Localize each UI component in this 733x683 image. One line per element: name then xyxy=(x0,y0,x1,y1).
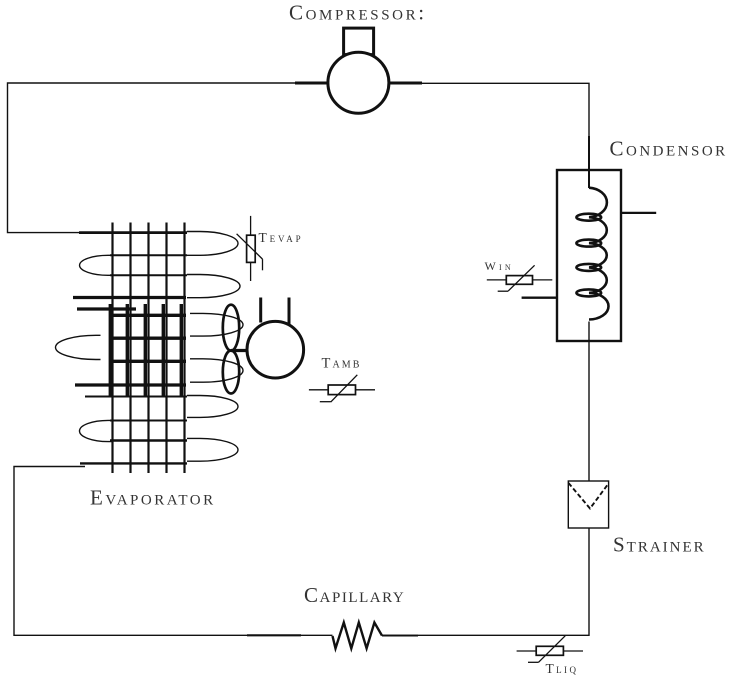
svg-text:Capillary: Capillary xyxy=(304,583,405,607)
svg-text:Compressor:: Compressor: xyxy=(289,1,427,25)
svg-text:Tliq: Tliq xyxy=(546,661,579,676)
svg-text:Tamb: Tamb xyxy=(322,356,362,372)
svg-text:Evaporator: Evaporator xyxy=(90,486,216,510)
svg-text:Condensor: Condensor xyxy=(610,136,728,160)
svg-text:Win: Win xyxy=(485,259,514,273)
svg-text:Tevap: Tevap xyxy=(259,230,304,245)
svg-text:Strainer: Strainer xyxy=(613,533,706,557)
